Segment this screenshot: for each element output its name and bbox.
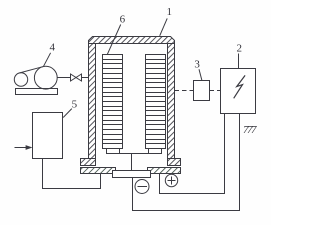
svg-text:4: 4 — [50, 41, 56, 53]
chamber 1 hatched right wall — [168, 44, 175, 159]
chamber 1 hatched left wall — [89, 44, 96, 159]
inlet arrow into box 5 — [15, 145, 33, 150]
wire negative terminal to box 2 right terminal — [133, 114, 240, 211]
box 5 — [33, 113, 63, 159]
wire positive terminal to box 2 left terminal — [160, 114, 225, 194]
svg-text:5: 5 — [72, 98, 78, 110]
dashed line box 3 to box 2 — [210, 90, 221, 92]
label 3 — [194, 58, 200, 70]
right stack foot — [149, 149, 162, 154]
chamber 1 right flange foot — [168, 159, 181, 166]
label 2 — [236, 43, 242, 55]
leader line for label 1 — [160, 18, 168, 35]
leader line for label 6 — [107, 25, 120, 55]
svg-text:1: 1 — [166, 6, 172, 18]
power supply box 2 — [221, 69, 256, 114]
electrode stack 6 right — [146, 55, 166, 149]
ground symbol — [243, 124, 257, 136]
base plate hatched left part — [81, 168, 116, 174]
chamber 1 hatched top wall — [89, 37, 175, 44]
box 3 — [194, 81, 210, 101]
wire from box 5 to base plate — [43, 159, 101, 189]
svg-text:6: 6 — [120, 13, 126, 25]
leader line for label 5 — [63, 109, 72, 118]
lightning bolt symbol in box 2 — [234, 75, 245, 98]
support bar between feet — [107, 153, 162, 155]
wire pump to valve — [57, 77, 70, 79]
svg-text:777: 777 — [243, 124, 257, 136]
label 4 — [50, 41, 56, 53]
svg-text:3: 3 — [194, 58, 200, 70]
pump 4 small pulley circle — [14, 73, 27, 86]
pump 4 base plate — [16, 89, 58, 95]
wire valve to chamber 1 — [82, 77, 90, 79]
chamber 1 left flange foot — [81, 159, 96, 166]
label 1 — [166, 6, 172, 18]
dashed line chamber to box 3 — [175, 90, 194, 92]
leader line for label 3 — [199, 69, 202, 81]
feedthrough box under base plate — [113, 171, 151, 178]
negative terminal circle — [135, 180, 149, 194]
left stack foot — [107, 149, 120, 154]
leader line for label 2 — [238, 54, 240, 69]
positive terminal circle — [165, 174, 177, 186]
leader line for label 4 — [44, 53, 51, 67]
pump 4 belt line — [19, 67, 43, 73]
pump 4 large pulley circle — [34, 66, 57, 89]
svg-text:2: 2 — [236, 43, 242, 55]
label 5 — [72, 98, 78, 110]
electrode stack 6 left — [103, 55, 123, 149]
stem from support bar down through base — [131, 154, 133, 172]
base plate hatched right part — [148, 168, 181, 174]
valve (bowtie) — [71, 74, 82, 81]
label 6 — [120, 13, 126, 25]
